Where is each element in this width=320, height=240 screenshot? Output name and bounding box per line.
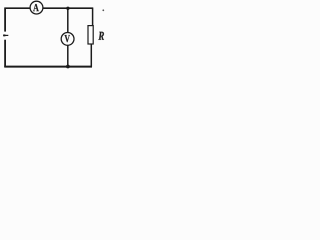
wire voltmeter branch lower <box>67 45 69 67</box>
label R <box>98 32 104 40</box>
wire voltmeter branch upper <box>67 8 69 33</box>
node junction bottom <box>66 65 70 69</box>
wire right upper <box>92 8 94 26</box>
wire top <box>5 7 93 9</box>
wire left upper <box>4 8 6 32</box>
wire bottom <box>4 66 92 68</box>
ammeter <box>30 1 43 14</box>
wire right lower <box>90 44 92 67</box>
wire left lower <box>4 40 6 67</box>
battery cell <box>3 34 8 36</box>
speck artifact <box>102 9 104 11</box>
voltmeter <box>61 33 74 46</box>
node junction top <box>66 7 69 10</box>
resistor R <box>88 26 93 44</box>
